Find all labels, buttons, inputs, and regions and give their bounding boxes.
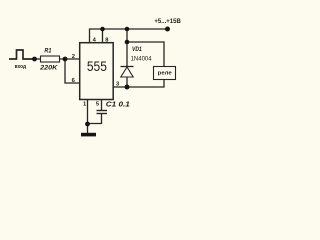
svg-text:реле: реле [158,71,173,77]
svg-text:+5...+15B: +5...+15B [154,18,180,25]
svg-text:вход: вход [15,64,27,70]
svg-text:2: 2 [72,54,75,60]
svg-text:C1 0.1: C1 0.1 [106,99,130,108]
svg-text:1N4004: 1N4004 [131,55,152,62]
svg-text:555: 555 [87,59,107,74]
svg-text:VD1: VD1 [132,46,142,53]
svg-text:R1: R1 [44,48,51,55]
svg-text:220K: 220K [39,65,59,72]
